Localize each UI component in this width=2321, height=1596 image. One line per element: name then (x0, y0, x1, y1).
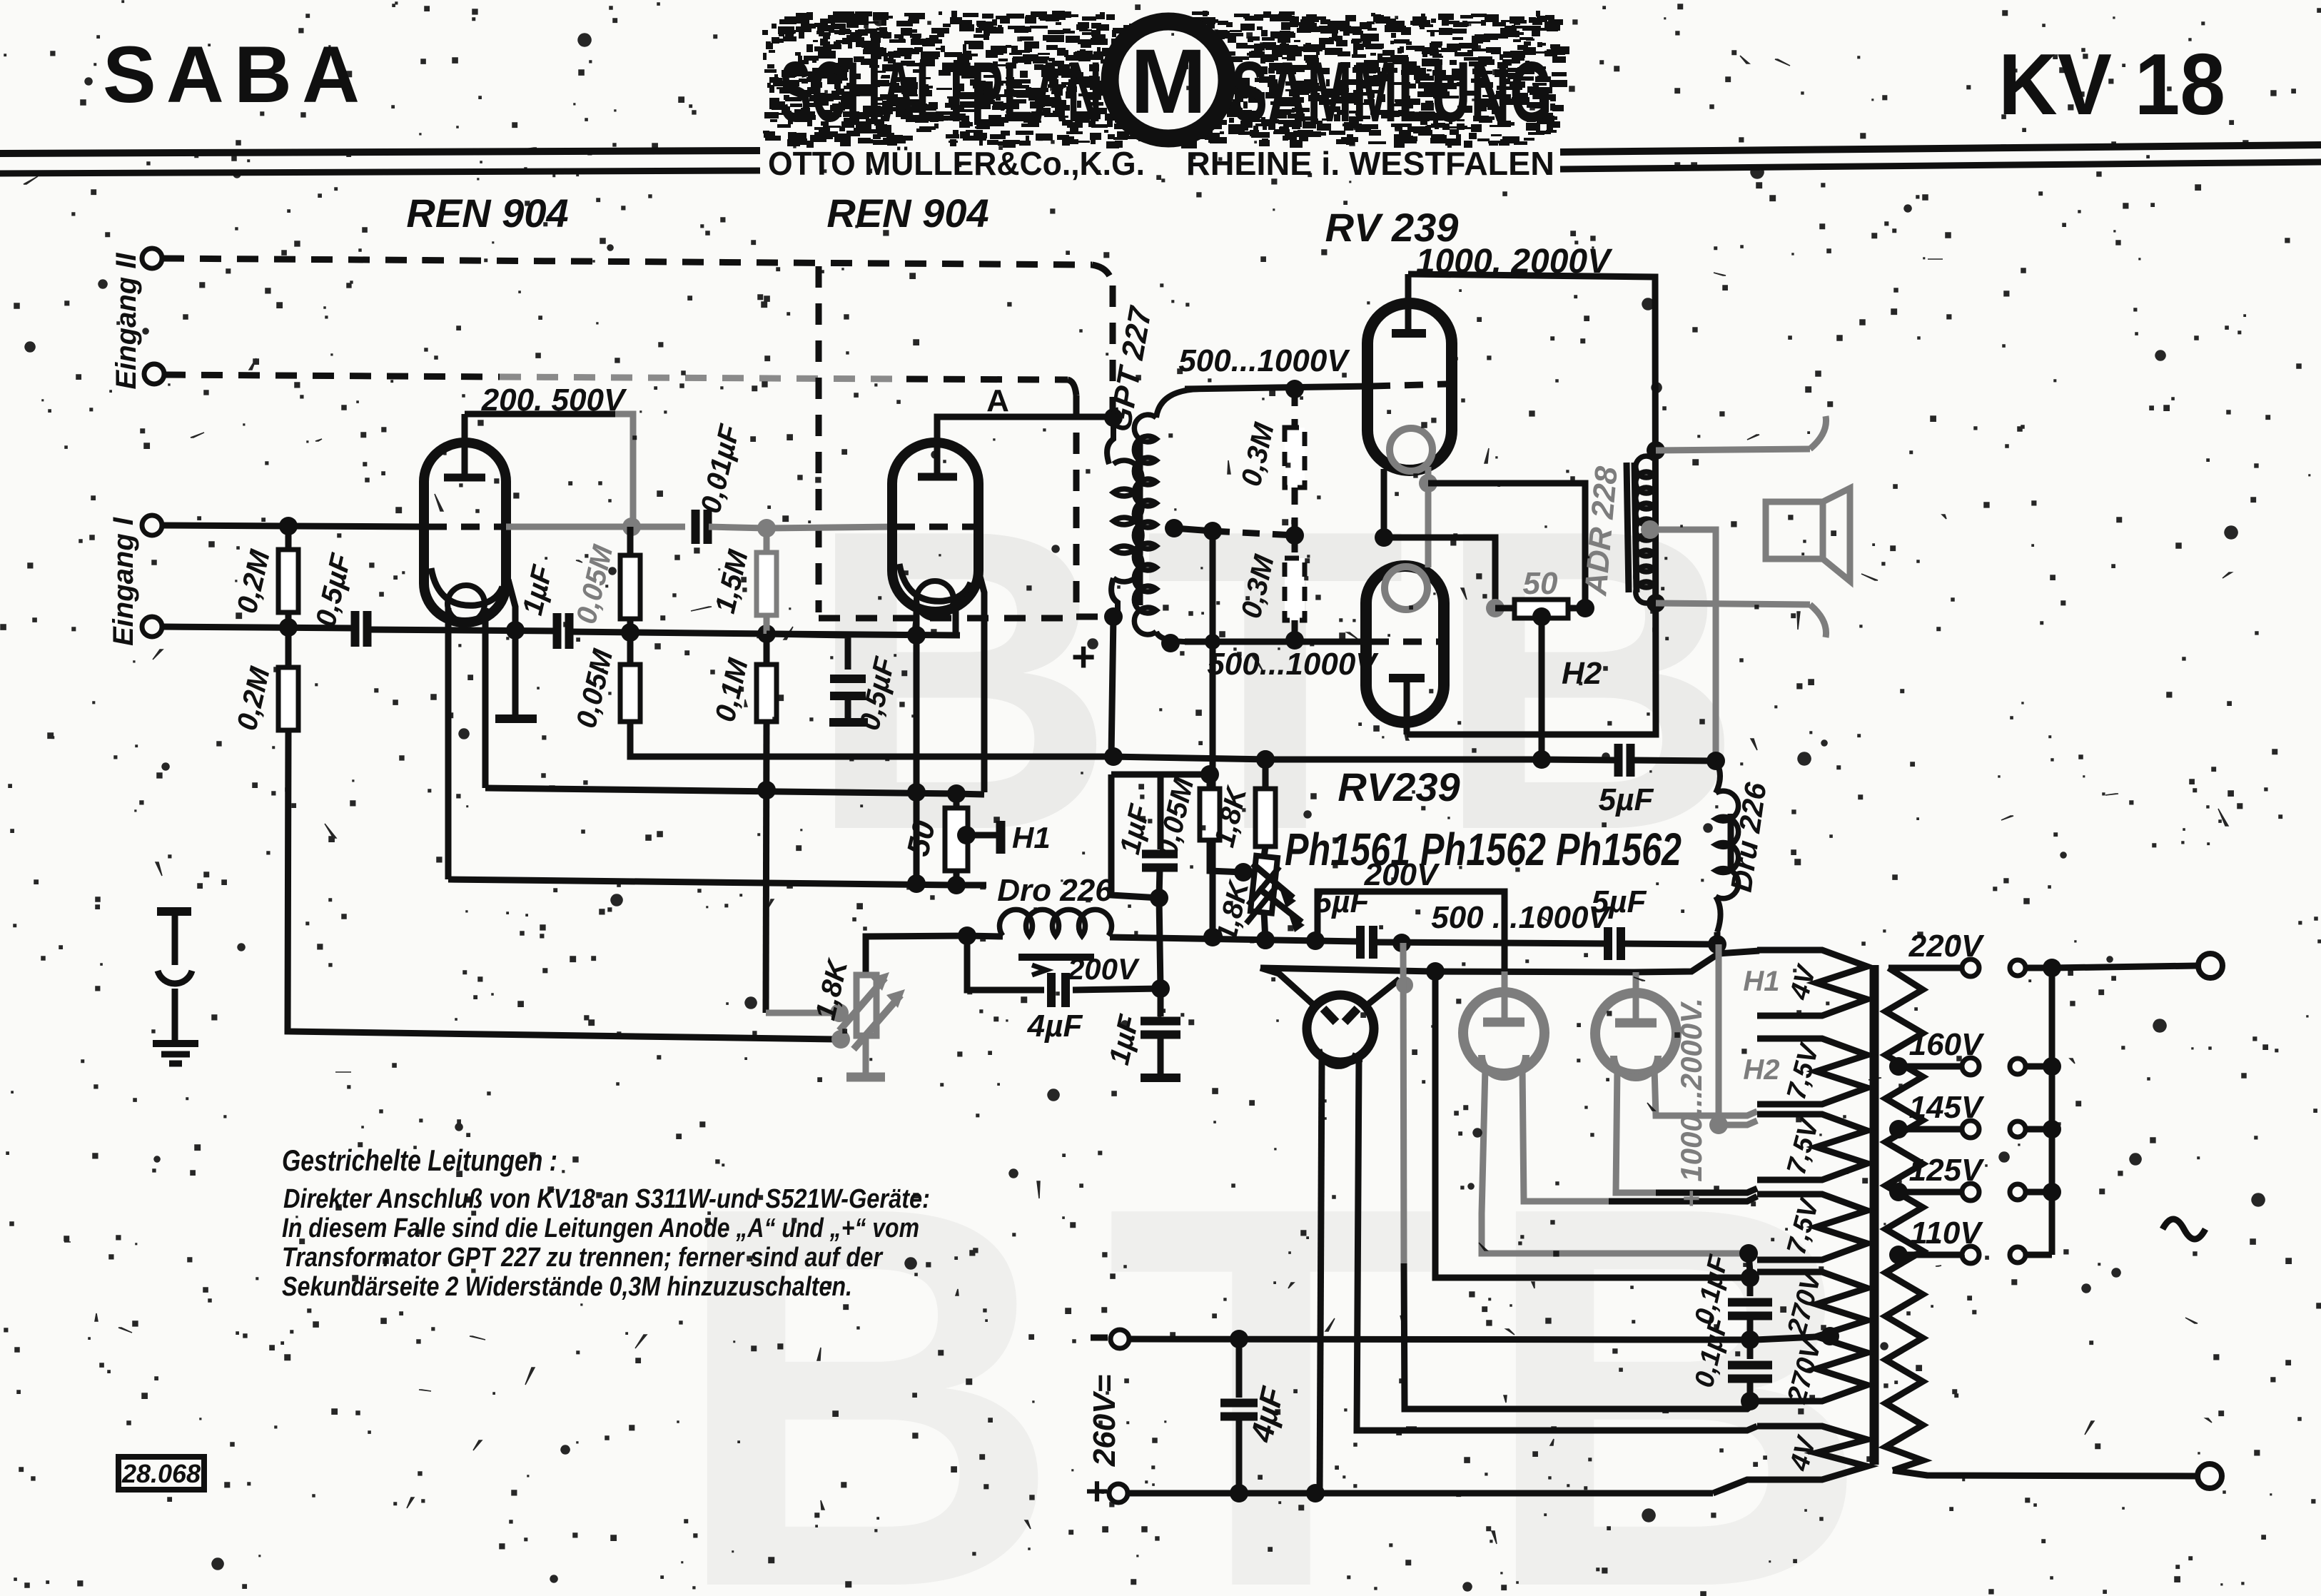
H1 terminal bar (996, 821, 1006, 854)
loudspeaker (1766, 502, 1823, 559)
node center (1741, 1330, 1759, 1349)
triode V1 REN904 envelope (424, 443, 506, 622)
V7 legs (1616, 1069, 1656, 1193)
200V marking bar (1018, 954, 1094, 961)
svg-text:500 ...1000V: 500 ...1000V (1431, 900, 1612, 935)
wire 0.2M lower to bias pot (long) (288, 730, 835, 1039)
V3 plate bar (1392, 329, 1426, 338)
plus terminal (1109, 1484, 1128, 1502)
svg-text:145V: 145V (1909, 1090, 1985, 1125)
voltage selector circles (2010, 960, 2026, 976)
HV winding 270V+270V (1757, 1272, 1867, 1401)
dashed wire Eingang II lower (black part) (164, 375, 500, 377)
svg-text:REN 904: REN 904 (406, 191, 568, 236)
V5 top-right lead (gray join) (1365, 981, 1405, 1006)
ADR mid tap (gray) (1641, 520, 1659, 539)
wire ADR mid tap down (gray) (1650, 530, 1716, 755)
capacitor 1uF (upper) (1158, 774, 1164, 849)
160V tap (1889, 1057, 1908, 1076)
V1 cathode arc (431, 568, 502, 605)
output tube V4 RV239 lower envelope (1366, 566, 1444, 722)
bus line A (1111, 757, 1270, 759)
svg-text:200V: 200V (1067, 952, 1140, 986)
V4 grid dashed (1370, 639, 1439, 645)
winding 7.5V (a) (1757, 1114, 1867, 1180)
svg-text:200. 500V: 200. 500V (481, 383, 627, 418)
pot 1.8K arrows (1253, 864, 1293, 898)
node bus / 1.5M-0.1M (757, 625, 776, 643)
GPT227 core (1137, 441, 1143, 605)
capacitor 0.5uF input coupling (351, 611, 360, 647)
capacitor 1uF coupling (553, 613, 562, 649)
header double rule left (0, 151, 760, 153)
svg-text:In diesem Falle sind die: In diesem Falle sind die Leitungen Anode… (282, 1213, 919, 1243)
wire line C (cathode return) (448, 879, 986, 885)
svg-text:500...1000V: 500...1000V (1207, 647, 1379, 682)
winding 7.5V (b) (1757, 1194, 1867, 1260)
ground symbol (153, 1040, 198, 1047)
svg-text:28.068: 28.068 (121, 1459, 201, 1488)
wire bus2 to W5 top via x2011 (1435, 971, 1741, 1278)
ADR top tap (1647, 441, 1665, 460)
resistor 0.05M (bias divider) (1200, 765, 1219, 784)
heater winding H1 4V (1757, 950, 1867, 1016)
node y1258 (1150, 889, 1168, 907)
watermark BTB upper (671, 441, 1914, 1596)
V6 legs (1482, 1068, 1741, 1253)
choke Dru226 (1716, 761, 1720, 793)
choke Dro226 (1000, 909, 1112, 936)
wire Eingang I lower bus left (162, 627, 354, 628)
resistor 0.05M lower (627, 632, 634, 665)
node bus x722 (506, 621, 525, 640)
svg-text:Dro 226: Dro 226 (997, 873, 1113, 908)
node GPT227 primary top / A (1104, 408, 1123, 427)
4uF bypass branch (967, 936, 1044, 990)
svg-text:REN 904: REN 904 (826, 191, 988, 236)
svg-text:260V=: 260V= (1087, 1375, 1122, 1467)
ADR228 winding (1636, 456, 1654, 603)
Schaltplan-Sammlung stamp halftone background (762, 11, 1569, 148)
resistor 0.05M upper (grid leak) (627, 527, 634, 555)
resistor 0.2M upper (278, 550, 298, 612)
capacitor 5uF (to Dru226) (1614, 744, 1623, 777)
minus terminal (1111, 1330, 1129, 1348)
capacitor 0.01uF coupling (692, 510, 700, 544)
dashed wire Eingang II upper (163, 258, 1092, 265)
capacitor 1uF (lower) (1158, 989, 1164, 1016)
resistor 0.3M upper (dashed) (1292, 389, 1298, 428)
50 H1 bottom lead (954, 871, 960, 885)
svg-text:RV239: RV239 (1338, 764, 1460, 809)
110V tap (1889, 1246, 1908, 1264)
svg-text:SAMMLUNG: SAMMLUNG (1231, 44, 1552, 140)
svg-text:S A B A: S A B A (103, 30, 360, 119)
resistor 50 H1 (945, 808, 968, 871)
svg-text:H1: H1 (1012, 821, 1051, 854)
wire 0.2M top lead (285, 526, 292, 550)
wire to 50 right terminal (1428, 483, 1585, 604)
V1 anode plate bar (444, 474, 485, 482)
bus1 rail (967, 936, 1003, 936)
pot bottom to bus1 (1264, 912, 1265, 940)
gray pot lower terminal (831, 1030, 850, 1049)
wire coupling cap to 1.5M node (709, 527, 767, 528)
wire 0.1M feed to gray pot (766, 1010, 834, 1016)
bus2 (to H1 winding) (1260, 951, 1759, 972)
resistor 0.3M lower (dashed) (1292, 535, 1298, 558)
svg-text:Sekundärseite 2 Widerstände: Sekundärseite 2 Widerstände 0,3M hinzuzu… (282, 1272, 852, 1302)
capacitor 0.1uF lower (1747, 1340, 1754, 1359)
hum resistor 50 (H2) (1486, 599, 1505, 617)
V7 anode to bus2 (1633, 972, 1639, 1024)
Dru226 core (1728, 814, 1734, 874)
resistor 1.8K fixed (1256, 750, 1275, 769)
header double rule right (1560, 145, 2321, 152)
arc (158, 971, 192, 984)
svg-text:H2: H2 (1562, 656, 1602, 691)
V4 cathode arc (gray) (1385, 567, 1427, 610)
V1 side lead to ground bar (508, 580, 515, 715)
triode V2 REN904 envelope (892, 443, 979, 612)
V2 grid dashed (896, 524, 974, 530)
svg-text:H2: H2 (1743, 1054, 1779, 1086)
GPT227 secondary mid tap (1165, 519, 1183, 537)
winding 4V rectifier filament (1757, 1426, 1867, 1480)
V2 anode lead to A (937, 417, 1105, 477)
0.5uF bottom bar (829, 718, 868, 727)
mid tap row (1174, 528, 1213, 531)
wire GPT+ branch y1085 (1111, 772, 1210, 778)
node 1.5M top (757, 519, 776, 537)
node line B / 0.1M column (757, 781, 776, 799)
minus line to HV center tap (1129, 1339, 1744, 1340)
rectifier tube V7 Ph1562 (gray) (1595, 993, 1677, 1074)
node junction grid/0.2M (279, 517, 298, 535)
rectifier tube V6 Ph1562 (gray) (1463, 992, 1544, 1074)
svg-text:H1: H1 (1743, 966, 1779, 997)
V5 leg right to 4V winding (1357, 1060, 1757, 1430)
V5 leg left to + line (1320, 1060, 1322, 1493)
input terminal Eingang I a (142, 515, 162, 535)
pot top feed wire (866, 936, 967, 975)
node grid2 network (622, 517, 641, 536)
resistor 0.2M lower (278, 667, 298, 730)
svg-text:110V: 110V (1910, 1216, 1983, 1251)
V2 anode plate bar (918, 473, 957, 481)
dashed wire Eingang II lower (gray part) (500, 377, 906, 379)
rectifier tube V5 Ph1561 (black) (1307, 995, 1374, 1062)
wire 0.1M down to bias pot feed (766, 722, 767, 1013)
V6 anode + 200V bracket vertical (1502, 971, 1508, 1024)
svg-text:50: 50 (1523, 566, 1558, 601)
wire W5 top lead jog (1749, 1253, 1750, 1272)
V4 plate bar (1389, 674, 1425, 682)
gray pot stem + bar (863, 1036, 869, 1074)
svg-text:Eingang I: Eingang I (108, 517, 139, 646)
V1 cathode leg right (482, 608, 489, 788)
svg-text:Gestrichelte Leitungen :: Gestrichelte Leitungen : (282, 1143, 557, 1177)
dashed wire drop to GPT227 primary top (1110, 286, 1116, 413)
wire ADR bottom to speaker (gray) (1656, 603, 1810, 605)
svg-text:Direkter Anschluß von KV18: Direkter Anschluß von KV18 an S311W-und … (283, 1184, 930, 1214)
dashed wire drop x1147 (alternate connection) (816, 266, 822, 612)
resistor 0.1M (764, 634, 770, 665)
transformer core (1870, 965, 1879, 1465)
wire V1 anode 200..500V run (465, 411, 615, 418)
capacitor 0.1uF upper (1747, 1278, 1754, 1296)
wire Eingang I upper to V1 grid (162, 525, 427, 527)
wire 500..1000V lower (1185, 639, 1369, 645)
node bus / 0.05M (621, 623, 639, 642)
filament left lead (1381, 469, 1387, 537)
plus line to 4V winding (1128, 1490, 1713, 1497)
+1000..2000V gray feed (1716, 944, 1722, 1119)
wire line B (grid return) (485, 788, 984, 794)
wire Dru226 to bus1 (1714, 932, 1721, 944)
heater winding H2 7.5V (1757, 1039, 1867, 1104)
node line C / V2 leg (907, 874, 926, 893)
V1 cathode leg left (445, 608, 452, 879)
V2 cathode leg left (914, 605, 920, 884)
200V bracket (1318, 892, 1505, 971)
primary tapped winding zigzag (1886, 968, 1923, 1470)
GPT227 secondary winding (1156, 389, 1199, 418)
V4 anode lead down (1404, 678, 1410, 734)
svg-text:RHEINE i. WESTFALEN: RHEINE i. WESTFALEN (1186, 145, 1554, 182)
svg-text:M: M (1131, 31, 1207, 133)
gray pot arrows (839, 978, 885, 1031)
wire 0.2M to lower bus (285, 612, 292, 627)
hum potentiometer 50 (H1) top lead (947, 784, 966, 803)
50 H1 wiper to H1 terminal (957, 826, 976, 844)
145V tap (1889, 1120, 1908, 1138)
node bus / V2 cathode (907, 626, 926, 645)
V5 top-left lead to bus2 (1260, 968, 1315, 1006)
wire GPT center tap down (1210, 531, 1216, 937)
wire bus to 1uF (369, 630, 556, 631)
svg-text:125V: 125V (1909, 1153, 1985, 1188)
125V tap (1889, 1183, 1908, 1201)
wire down through bus1 (1159, 898, 1160, 989)
capacitor 0.5uF cathode bypass (767, 634, 848, 670)
50 H2 wiper down (1532, 607, 1551, 626)
capacitor 5uF (left) (1356, 926, 1365, 959)
output tube V3 RV239 upper envelope (1367, 303, 1452, 470)
svg-text:+ 1000...2000V.: + 1000...2000V. (1674, 998, 1708, 1208)
V1 cathode ground bar (495, 714, 537, 723)
ADR bottom tap (1647, 594, 1665, 612)
svg-text:500...1000V: 500...1000V (1178, 343, 1350, 378)
AC symbol (2163, 1219, 2205, 1239)
dashed wire drop x1508 (1073, 395, 1080, 608)
HV center tap (1821, 1327, 1839, 1345)
svg-text:200V: 200V (1364, 857, 1440, 892)
node pot top (1234, 863, 1253, 882)
node junction lower bus/0.2M (279, 618, 298, 637)
wire 500..1000V upper (1185, 386, 1370, 389)
svg-text:+: + (1086, 1468, 1109, 1513)
svg-text:KV 18: KV 18 (1998, 36, 2225, 133)
wire GPT+ down to line A (1111, 617, 1113, 757)
input terminal Eingang II a (142, 248, 162, 268)
input terminal Eingang I b (142, 617, 162, 637)
svg-text:A: A (986, 383, 1009, 418)
resistor 1.5M (764, 528, 770, 552)
node GPT227 primary bottom (1104, 607, 1123, 626)
capacitor 5uF (right) (1604, 927, 1612, 960)
V2 cathode arc (899, 564, 971, 601)
node line B / V2 leg (907, 783, 926, 802)
potentiometer 1.8K gray (856, 975, 876, 1036)
wire node to V2 grid (767, 527, 894, 528)
anode rail top 1000..2000V (1407, 274, 1656, 734)
V3 grid dashed (1372, 384, 1447, 386)
V3 anode lead (1405, 274, 1412, 333)
svg-text:5µF: 5µF (1599, 782, 1654, 817)
svg-text:4µF: 4µF (1027, 1009, 1083, 1044)
wire V1 grid line to coupling cap (gray) (506, 524, 685, 530)
svg-text:160V: 160V (1909, 1027, 1985, 1062)
potentiometer 1.8K (black, hatched) (1246, 855, 1280, 926)
svg-text:Ph1561 Ph1562 Ph1562: Ph1561 Ph1562 Ph1562 (1285, 824, 1682, 875)
svg-text:Eingang II: Eingang II (111, 253, 142, 390)
wire bus to 0.05M (570, 632, 771, 634)
chassis antenna symbol top bar (157, 907, 191, 916)
V3 cathode arc (gray) (1390, 428, 1432, 471)
dashed wire bottom run y866 (819, 615, 1071, 622)
wire selector to mains terminal (2052, 966, 2197, 968)
input terminal Eingang II b (144, 364, 164, 384)
svg-text:Transformator GPT 227 zu tr: Transformator GPT 227 zu trennen; ferner… (282, 1243, 884, 1273)
selector bus vertical (2049, 968, 2055, 1255)
svg-text:OTTO MÜLLER&Co.,K.G.: OTTO MÜLLER&Co.,K.G. (768, 145, 1145, 182)
wire 0.05M to line A (630, 722, 1111, 757)
stamp logo circle M (1110, 21, 1227, 138)
vertical bus1 to W5 bottom (1403, 943, 1404, 1263)
V1 grid dashed (428, 524, 504, 530)
wire ADR top to speaker (gray) (1656, 449, 1810, 450)
GPT227 primary winding (1107, 418, 1113, 464)
bottom mains lead (1893, 1470, 2197, 1476)
220V tap (1888, 965, 1961, 971)
capacitor 4uF (1236, 1339, 1243, 1398)
wire bus to V2 cathode leg (771, 634, 960, 635)
filament link V3-V4 (gray) (1425, 467, 1432, 567)
V2 side lead down (979, 571, 984, 792)
document number box (118, 1457, 204, 1490)
V1 anode lead up (462, 414, 468, 478)
ADR228 core (1627, 463, 1629, 592)
V2 cathode leg right (953, 605, 959, 635)
